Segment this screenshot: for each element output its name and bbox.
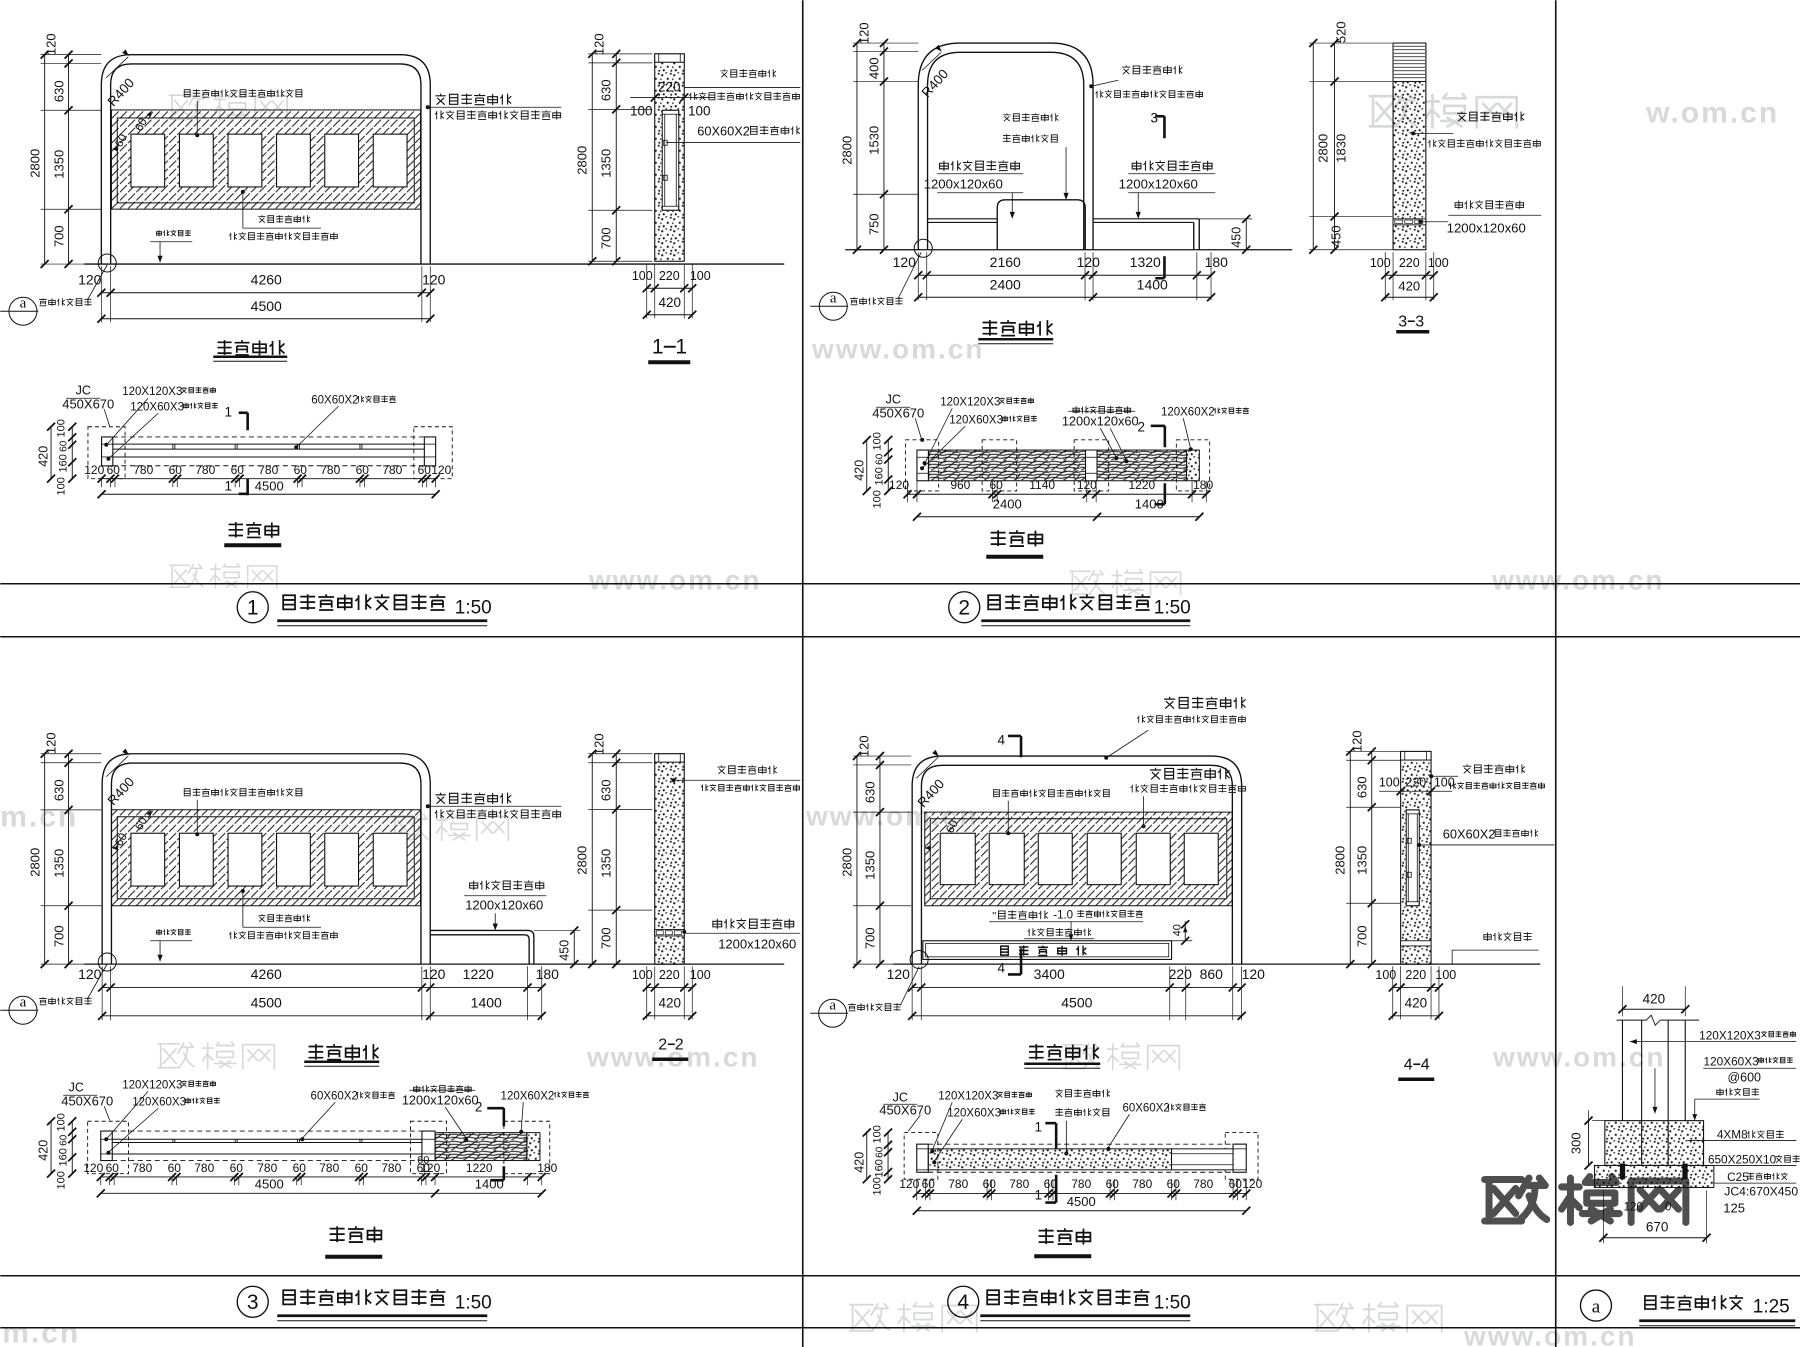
panel3 bench slab right	[430, 930, 534, 964]
svg-text:100: 100	[55, 419, 67, 437]
panel3 hatch panel inner border	[117, 817, 414, 899]
svg-text:1:50: 1:50	[1154, 1292, 1191, 1313]
svg-text:60: 60	[874, 1146, 885, 1158]
svg-text:-1.0: -1.0	[1053, 909, 1073, 921]
svg-text:1: 1	[224, 404, 232, 419]
svg-text:60: 60	[294, 463, 308, 477]
panel2 circle small at base	[914, 239, 932, 257]
svg-text:120X60X3: 120X60X3	[947, 1107, 1001, 1119]
svg-text:om.cn: om.cn	[0, 1316, 80, 1347]
svg-text:2800: 2800	[839, 848, 854, 877]
svg-text:120: 120	[1077, 478, 1097, 492]
panel3 label R400	[106, 756, 128, 777]
svg-text:180: 180	[1205, 254, 1229, 270]
section2-2 label steel plate right	[718, 765, 777, 774]
plan3 bar hidden top edge dashed	[112, 1130, 422, 1132]
detail-a footing stipple	[1605, 1121, 1704, 1166]
svg-text:1220: 1220	[466, 1161, 493, 1175]
panel1 bottom dim row1	[101, 292, 430, 294]
svg-text:60: 60	[169, 463, 183, 477]
svg-text:100: 100	[688, 103, 711, 118]
svg-text:1140: 1140	[1029, 478, 1055, 492]
section1-1 bottom dims	[646, 264, 648, 318]
panel2 bottom dim row1	[918, 274, 1211, 276]
svg-text:3400: 3400	[1034, 966, 1065, 982]
svg-text:120: 120	[856, 735, 871, 757]
plan1 tube joints	[172, 444, 174, 449]
svg-text:4500: 4500	[1067, 1194, 1096, 1209]
svg-text:100: 100	[55, 477, 67, 495]
svg-text:120: 120	[887, 966, 911, 982]
panel2 frame arch tube	[918, 43, 1093, 250]
panel3 window 5	[325, 833, 359, 886]
panel3 label puzhuang	[156, 929, 190, 935]
watermark light eumo panel4 title row	[1063, 1043, 1179, 1069]
svg-text:om.cn: om.cn	[0, 800, 78, 833]
section2-2 top cap	[655, 754, 685, 762]
panel1 label puzhuang (paving)	[156, 230, 190, 236]
svg-text:700: 700	[51, 925, 66, 947]
svg-text:4260: 4260	[251, 966, 282, 982]
svg-text:100: 100	[690, 968, 711, 982]
plan4 title pingmiantu	[1039, 1228, 1091, 1244]
title4 underline	[980, 1314, 1190, 1317]
plan1 left end column block	[102, 437, 113, 466]
panel3 window 4	[277, 833, 311, 886]
svg-text:1400: 1400	[475, 1176, 504, 1191]
panel4 hatch panel outer	[925, 812, 1233, 906]
svg-text:780: 780	[258, 463, 278, 477]
svg-text:780: 780	[132, 1161, 152, 1175]
divider vertical right column	[1555, 0, 1557, 1347]
svg-text:1350: 1350	[1354, 846, 1369, 875]
svg-text:60: 60	[983, 1177, 997, 1191]
svg-text:60: 60	[1167, 1177, 1181, 1191]
section3-3 label steel plate	[1457, 111, 1524, 121]
panel4 sign box	[923, 941, 1172, 960]
svg-text:700: 700	[1354, 925, 1369, 947]
panel4 window 3	[1038, 833, 1072, 884]
svg-text:60X60X2: 60X60X2	[1443, 826, 1496, 841]
svg-text:a: a	[830, 290, 837, 306]
panel4 window 2	[989, 833, 1024, 884]
section1-1 top cap	[655, 54, 685, 62]
watermark light eumo bottom band 2	[1315, 1303, 1442, 1332]
panel3 window 1	[131, 833, 165, 886]
svg-text:www.om.cn: www.om.cn	[1492, 1041, 1666, 1072]
svg-text:1400: 1400	[1137, 276, 1168, 292]
svg-text:JC: JC	[76, 383, 91, 397]
section4-4 top cap	[1401, 751, 1431, 760]
section4-4 label puzhuang	[1484, 932, 1532, 941]
section2-2 label wood bench	[713, 919, 794, 929]
svg-text:120: 120	[1349, 730, 1364, 752]
svg-text:2: 2	[958, 596, 970, 619]
panel3 label right steel plate	[435, 793, 511, 804]
panel2 bottom dim extensions	[917, 252, 919, 300]
svg-text:60: 60	[230, 1161, 244, 1175]
svg-text:120X120X3: 120X120X3	[938, 1090, 998, 1102]
plan3 footing dashed left	[88, 1121, 129, 1173]
svg-text:60: 60	[874, 453, 885, 465]
svg-text:450: 450	[557, 940, 571, 961]
svg-text:780: 780	[133, 463, 153, 477]
panel2 section mark 3 bottom	[1163, 256, 1166, 278]
plan4 right end block	[1233, 1144, 1246, 1172]
section3-3 bottom dims	[1384, 252, 1386, 300]
plan4 label steel plate yellow	[1055, 1089, 1109, 1097]
panel4 ground line	[893, 963, 1540, 965]
svg-text:1350: 1350	[862, 851, 877, 880]
plan4 stipple bar	[928, 1149, 1171, 1170]
svg-text:120: 120	[78, 271, 102, 287]
svg-text:120X120X3: 120X120X3	[1699, 1028, 1761, 1042]
svg-text:2: 2	[658, 1036, 667, 1053]
plan2 footing dashed mid2	[1074, 440, 1109, 491]
section4-4 label steel plate	[1463, 764, 1525, 773]
svg-text:100: 100	[871, 1125, 883, 1143]
svg-text:160: 160	[873, 467, 885, 485]
panel2 label steel plate top-right	[1122, 65, 1182, 74]
section1-1 width dim 220	[630, 97, 712, 99]
panel3 label lishiwenhua	[184, 788, 302, 796]
svg-text:4: 4	[997, 960, 1005, 975]
svg-text:3: 3	[1150, 110, 1158, 125]
section4-4 width dim 100 220 100	[1379, 790, 1452, 792]
svg-text:1320: 1320	[1130, 254, 1161, 270]
watermark light eumo panel3	[392, 814, 508, 840]
title1 text	[283, 594, 445, 610]
panel4 bottom dim row2	[912, 1015, 1242, 1017]
svg-text:1220: 1220	[1128, 478, 1155, 492]
detail-a label puzhuang	[1717, 1088, 1759, 1096]
section4-4 column body	[1401, 751, 1431, 964]
svg-text:60: 60	[922, 1177, 936, 1191]
svg-text:60: 60	[1229, 1177, 1243, 1191]
svg-text:700: 700	[862, 927, 877, 949]
section2-2 bench band	[655, 930, 685, 936]
svg-text:180: 180	[537, 1161, 557, 1175]
plan2 footing dashed left	[905, 440, 938, 491]
svg-text:1: 1	[652, 335, 664, 358]
svg-text:4XM8: 4XM8	[1717, 1127, 1748, 1141]
svg-text:780: 780	[319, 1161, 339, 1175]
svg-text:780: 780	[382, 463, 402, 477]
panel3 dim 450 bench	[534, 929, 580, 931]
svg-text:4500: 4500	[251, 994, 282, 1010]
panel2 label steel plate center	[1003, 113, 1058, 121]
svg-text:1:50: 1:50	[455, 597, 492, 618]
plan3 bar hidden bottom dashed	[112, 1160, 422, 1162]
svg-text:60: 60	[168, 1161, 182, 1175]
svg-text:1530: 1530	[866, 126, 881, 155]
panel1 hatch panel outer	[111, 110, 420, 209]
plan2 bottom dim row2	[917, 516, 1199, 518]
section3-3 left dim chain	[1309, 42, 1392, 44]
title-a circle	[1580, 1290, 1611, 1321]
svg-text:100: 100	[55, 1113, 67, 1131]
svg-text:1:50: 1:50	[455, 1292, 492, 1313]
svg-text:60: 60	[58, 440, 69, 452]
plan1 bar hidden top edge dashed	[113, 436, 425, 438]
svg-text:2: 2	[1137, 419, 1145, 434]
svg-text:120: 120	[1624, 1201, 1643, 1213]
section3-3 column body stipple	[1393, 43, 1426, 250]
panel1 leader lishiwenhua	[196, 101, 198, 136]
svg-text:630: 630	[51, 80, 66, 102]
svg-text:700: 700	[598, 927, 613, 949]
svg-text:w.om.cn: w.om.cn	[1645, 96, 1779, 129]
plan3 right end stipple block	[527, 1133, 540, 1161]
section2-2 bottom dims	[646, 966, 648, 1019]
panel2 title zhenglimian	[983, 320, 1053, 336]
section4-4 inner slot tube	[1406, 810, 1419, 906]
title3 underline	[277, 1314, 487, 1317]
plan4 bottom dim row2	[917, 1210, 1247, 1212]
svg-text:780: 780	[381, 1161, 401, 1175]
svg-text:120: 120	[591, 733, 606, 755]
svg-text:400: 400	[866, 57, 881, 79]
svg-text:160: 160	[873, 1159, 885, 1177]
panel1 ground line	[84, 263, 784, 265]
svg-text:120: 120	[431, 463, 451, 477]
panel2 bottom dim row2	[918, 296, 1211, 298]
panel3 bubble a left	[9, 996, 37, 1024]
svg-text:650X250X10: 650X250X10	[1708, 1152, 1777, 1166]
svg-text:1400: 1400	[471, 994, 502, 1010]
svg-text:3: 3	[247, 1291, 259, 1314]
plan2 right end stipple block	[1187, 450, 1200, 481]
plan1 footing dashed left	[88, 427, 125, 479]
panel1 label right steel plate	[435, 94, 511, 105]
panel2 bench right outside	[1093, 218, 1199, 220]
divider horizontal band top line1	[0, 583, 1800, 585]
svg-text:60: 60	[231, 463, 245, 477]
section3-3 label wood steel	[1455, 200, 1523, 209]
svg-text:JC: JC	[886, 392, 901, 406]
title2 text	[988, 594, 1150, 610]
section1-1 left dim chain	[588, 53, 652, 55]
svg-text:700: 700	[598, 227, 613, 249]
svg-text:60: 60	[106, 1161, 120, 1175]
svg-text:670: 670	[1646, 1219, 1669, 1234]
svg-text:0: 0	[1665, 1201, 1671, 1213]
watermark light eumo panel3 title row	[158, 1042, 274, 1068]
svg-text:60: 60	[293, 1161, 307, 1175]
panel3 bottom dim row2	[102, 1015, 542, 1017]
panel1 window 6	[373, 134, 407, 187]
svg-text:100: 100	[630, 103, 653, 118]
panel1 bottom dim extensions	[100, 266, 102, 322]
detail-a bedding layer	[1594, 1165, 1713, 1187]
plan2 footing dashed mid1	[982, 440, 1017, 491]
plan1 footing dashed right	[414, 427, 452, 479]
svg-text:120: 120	[422, 966, 446, 982]
svg-text:1:25: 1:25	[1753, 1296, 1790, 1317]
svg-text:220: 220	[1405, 775, 1426, 789]
svg-text:2400: 2400	[993, 496, 1022, 511]
panel4 window 1	[940, 833, 975, 884]
svg-text:120: 120	[83, 1161, 103, 1175]
svg-text:www.om.cn: www.om.cn	[588, 564, 762, 595]
svg-text:60X60X2: 60X60X2	[697, 123, 750, 138]
svg-text:2: 2	[675, 1036, 684, 1053]
svg-text:60: 60	[417, 1154, 429, 1166]
plan3 section cut 2 bottom	[503, 1166, 506, 1180]
svg-text:60X60X2: 60X60X2	[311, 1090, 358, 1102]
svg-text:520: 520	[1333, 21, 1348, 43]
panel3 window 6	[373, 833, 407, 886]
panel1 label lishiwenhua (history culture picture)	[184, 89, 302, 97]
svg-text:4: 4	[957, 1291, 969, 1314]
title4 circle number	[948, 1286, 979, 1317]
svg-text:960: 960	[950, 478, 970, 492]
plan2 mid column gap	[1086, 450, 1098, 481]
watermark light eumo top right	[1370, 94, 1517, 127]
title2 underline	[981, 619, 1190, 622]
panel2 label wood steel left	[940, 161, 1020, 171]
svg-text:120: 120	[84, 463, 104, 477]
svg-text:120: 120	[43, 33, 58, 55]
panel4 window 5	[1136, 833, 1170, 884]
svg-text:160: 160	[57, 1148, 69, 1166]
svg-text:780: 780	[257, 1161, 277, 1175]
svg-text:780: 780	[1132, 1177, 1152, 1191]
panel1 window 1	[131, 134, 165, 187]
plan2 wood bar left part	[928, 450, 1085, 481]
plan1 section cut 1 bottom	[246, 479, 249, 496]
svg-text:www.om.cn: www.om.cn	[1491, 564, 1665, 595]
svg-text:100: 100	[632, 968, 653, 982]
svg-text:1350: 1350	[51, 150, 66, 179]
svg-text:60: 60	[356, 463, 370, 477]
panel4 title zhenglimian	[1029, 1044, 1099, 1060]
svg-text:1200x120x60: 1200x120x60	[1062, 413, 1139, 428]
svg-text:1350: 1350	[51, 849, 66, 878]
plan3 bar tube lines	[112, 1138, 422, 1140]
panel4 hatch panel inner border	[930, 819, 1227, 899]
svg-text:120X60X3: 120X60X3	[130, 401, 184, 413]
svg-text:www.om.cn: www.om.cn	[586, 1041, 760, 1072]
detail-a top dim 420	[1621, 986, 1623, 1016]
section4-4 bottom dims	[1392, 966, 1394, 1019]
divider horizontal band bottom line1	[0, 1275, 1800, 1277]
panel4 dim 40 small	[1172, 940, 1193, 942]
plan3 right column block	[422, 1131, 435, 1161]
section1-1 label steel plate right	[720, 69, 775, 77]
svg-text:100: 100	[690, 269, 711, 283]
panel4 label R400	[916, 757, 938, 778]
svg-text:120: 120	[889, 478, 909, 492]
panel4 circle a small at base	[910, 950, 928, 968]
detail-a column top line with break	[1617, 1019, 1647, 1021]
title3 circle number	[237, 1286, 268, 1317]
svg-text:1200x120x60: 1200x120x60	[1447, 220, 1526, 235]
svg-text:780: 780	[1193, 1177, 1213, 1191]
svg-text:420: 420	[1398, 278, 1420, 293]
title-a text	[1645, 1295, 1743, 1310]
panel4 left dim chain	[853, 755, 911, 757]
svg-text:C25: C25	[1727, 1170, 1749, 1184]
panel3 circle a small at base	[98, 953, 116, 971]
plan2 left end block	[917, 450, 929, 481]
watermark light eumo bottom band 1	[850, 1303, 977, 1332]
panel3 window 3	[228, 833, 262, 886]
svg-text:120: 120	[43, 732, 58, 754]
panel1 label below steel plate	[258, 215, 310, 223]
svg-text:60: 60	[58, 1134, 69, 1146]
section4-4 pavement band	[1401, 941, 1431, 946]
panel1 hatch panel inner border	[117, 118, 414, 203]
svg-text:120X120X3: 120X120X3	[122, 1079, 182, 1091]
section2-2 column body	[655, 754, 685, 964]
panel1 window 4	[277, 134, 311, 187]
svg-text:100: 100	[1434, 775, 1455, 789]
panel1 window 2	[179, 134, 213, 187]
title3 text	[283, 1289, 445, 1305]
svg-text:2800: 2800	[1332, 846, 1347, 875]
plan2 bottom dim row1	[908, 493, 1207, 495]
svg-text:420: 420	[1405, 995, 1428, 1010]
plan2 wood bar right part	[1097, 450, 1187, 481]
svg-text:630: 630	[1354, 776, 1369, 798]
panel1 bubble leader and label	[87, 265, 107, 301]
plan3 left end block	[101, 1131, 113, 1161]
svg-text:1:50: 1:50	[1154, 597, 1191, 618]
plan4 footing dashed left	[904, 1132, 938, 1179]
panel1 label R400	[106, 57, 128, 78]
panel3 label below steel plate	[258, 914, 310, 922]
svg-text:630: 630	[598, 79, 613, 101]
watermark light eumo band left	[170, 564, 277, 588]
svg-text:220: 220	[1169, 966, 1193, 982]
plan4 bar hidden bottom dashed	[928, 1171, 1233, 1173]
panel4 label rose gold coating	[1028, 928, 1092, 936]
panel2 label wood steel right	[1132, 161, 1212, 171]
svg-text:JC4:670X450: JC4:670X450	[1724, 1184, 1798, 1198]
svg-text:100: 100	[871, 1177, 883, 1195]
svg-text:a: a	[20, 994, 27, 1010]
svg-text:100: 100	[1370, 256, 1391, 270]
svg-text:60X60X2: 60X60X2	[311, 394, 358, 406]
panel4 label steel plate 2	[1150, 768, 1230, 780]
svg-text:120X60X3: 120X60X3	[949, 414, 1003, 426]
panel1 title zhenglimian	[217, 340, 284, 355]
svg-text:100: 100	[871, 432, 883, 450]
svg-text:60: 60	[989, 478, 1003, 492]
svg-text:420: 420	[852, 460, 866, 481]
section3-3 wood slat band at 450	[1393, 219, 1426, 225]
svg-text:1200x120x60: 1200x120x60	[718, 936, 796, 951]
section4-4 left dim chain	[1346, 750, 1400, 752]
panel4 bubble a left	[819, 999, 847, 1027]
svg-text:1350: 1350	[598, 149, 613, 178]
divider vertical center	[802, 0, 804, 1347]
plan3 left chain 420	[50, 1121, 52, 1173]
plan2 section cut 2 bottom	[1164, 483, 1167, 504]
svg-text:220: 220	[658, 79, 681, 94]
panel3 ground line	[84, 963, 784, 965]
plan1 bar tube lines	[113, 443, 425, 445]
panel1 leader below	[242, 192, 244, 228]
svg-text:2160: 2160	[990, 254, 1021, 270]
watermark big eumo dark bottom right	[1485, 1177, 1686, 1223]
svg-text:120X60X3: 120X60X3	[1704, 1054, 1760, 1068]
panel3 window 2	[179, 833, 213, 886]
svg-text:780: 780	[194, 1161, 214, 1175]
svg-text:1: 1	[224, 478, 232, 493]
svg-text:780: 780	[1071, 1177, 1091, 1191]
